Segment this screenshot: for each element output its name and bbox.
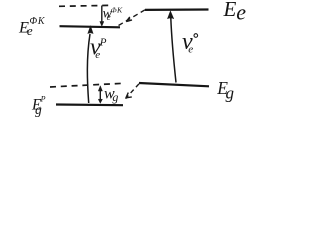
svg-text:g: g [226, 83, 235, 102]
level line E_g [139, 83, 209, 86]
dashed level above E_e^PhiK [59, 5, 113, 6]
svg-text:e: e [236, 0, 246, 24]
label nu_e^0 [182, 29, 198, 55]
svg-text:e: e [188, 43, 193, 55]
level line E_e [145, 8, 209, 11]
dashed transition arrow E_g to E_g^P [126, 84, 140, 99]
level line E_e^PhiK [60, 26, 121, 27]
svg-text:ΦК: ΦК [30, 16, 46, 27]
label w_g [104, 86, 118, 105]
svg-text:ΦК: ΦК [111, 6, 123, 15]
relaxation arrow w_e^PhiK [100, 6, 104, 27]
label E_g^P [31, 95, 46, 118]
label E_g (right) [216, 78, 234, 102]
dashed transition arrow E_e to E_e^PhiK [118, 10, 145, 26]
svg-text:g: g [112, 90, 118, 104]
excitation arrow nu_e^P [87, 26, 93, 103]
level line E_g^P [56, 103, 123, 106]
dashed level above E_g^P [50, 83, 125, 87]
svg-text:g: g [35, 102, 42, 117]
svg-text:P: P [40, 95, 46, 104]
svg-text:E: E [223, 0, 237, 21]
label w_e^PhiK [103, 6, 123, 23]
svg-text:e: e [95, 49, 100, 61]
label E_e (right) [223, 0, 247, 24]
absorption arrow nu_e^0 [167, 11, 176, 83]
label E_e^PhiK [18, 16, 46, 38]
svg-text:P: P [99, 36, 107, 48]
label nu_e^P [90, 34, 107, 60]
relaxation arrow w_g [98, 86, 102, 104]
